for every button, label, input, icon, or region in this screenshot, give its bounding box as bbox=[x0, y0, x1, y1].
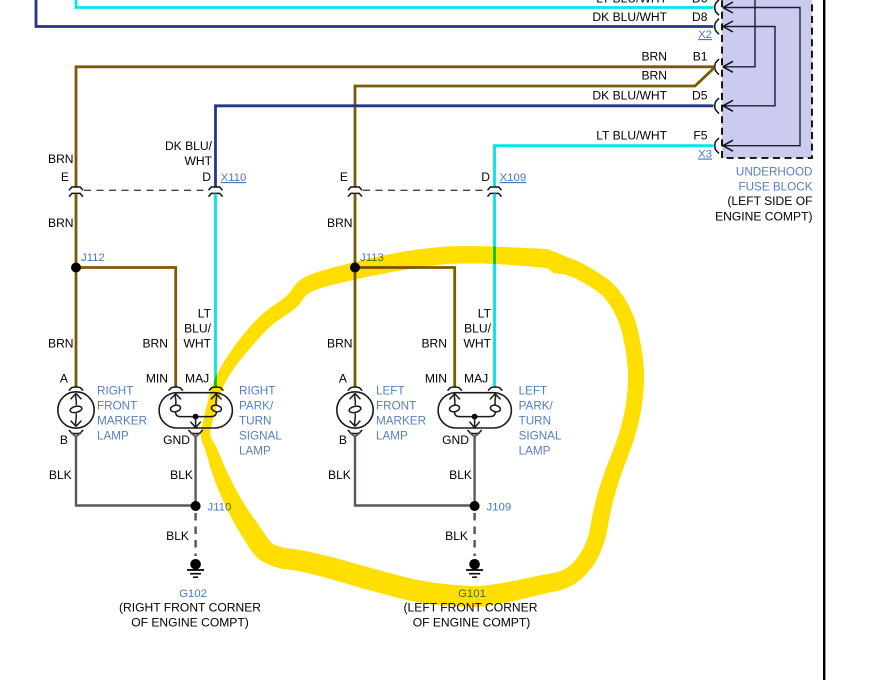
svg-text:RIGHT: RIGHT bbox=[239, 385, 275, 398]
label G102 bbox=[119, 588, 261, 630]
fuse block terminal arrow B1 bbox=[723, 61, 733, 72]
wire DK BLU/WHT D8 bbox=[36, 0, 714, 27]
svg-text:BLU/: BLU/ bbox=[464, 322, 492, 336]
ground G101 bbox=[466, 559, 483, 577]
fuse block terminal arrow D8 bbox=[723, 21, 733, 32]
svg-text:GND: GND bbox=[163, 433, 190, 447]
svg-text:MAJ: MAJ bbox=[185, 371, 209, 385]
yellow highlighter end overlap blob bbox=[544, 254, 570, 277]
wire BRN second bbox=[355, 68, 715, 188]
fuse block internal wire: top terminal to F5 bbox=[723, 8, 800, 146]
fuse block brace F5 bbox=[715, 138, 719, 154]
underhood fuse block body bbox=[722, 0, 812, 158]
svg-text:BRN: BRN bbox=[641, 50, 667, 64]
connector X109 dashed line bbox=[363, 189, 487, 191]
fuse block terminal arrow D5 bbox=[723, 100, 733, 111]
fuse block internal wire: D8 to D5 bbox=[723, 27, 775, 106]
svg-text:D8: D8 bbox=[692, 10, 708, 24]
svg-text:(LEFT SIDE OF: (LEFT SIDE OF bbox=[727, 194, 812, 208]
wire BRN B1 bbox=[76, 67, 714, 187]
wire LT BLU/WHT top (cut off) bbox=[76, 0, 714, 8]
svg-text:BRN: BRN bbox=[421, 337, 447, 351]
fuse block brace top bbox=[715, 0, 719, 15]
svg-text:UNDERHOOD: UNDERHOOD bbox=[736, 166, 813, 179]
splice J112 bbox=[71, 263, 81, 273]
svg-text:D6: D6 bbox=[692, 0, 708, 6]
connector X110 terminal D bbox=[209, 187, 223, 197]
svg-text:DK BLU/WHT: DK BLU/WHT bbox=[592, 10, 667, 24]
label E D X109 bbox=[340, 170, 526, 184]
splice J113 bbox=[350, 263, 360, 273]
connector X109 terminal E bbox=[348, 187, 362, 197]
svg-text:FRONT: FRONT bbox=[97, 400, 137, 413]
wire BLK dashed to G102 bbox=[194, 513, 196, 556]
svg-text:LT BLU/WHT: LT BLU/WHT bbox=[596, 129, 667, 143]
wire BRN below X109 to J113 to marker A bbox=[354, 194, 357, 387]
svg-text:F5: F5 bbox=[693, 129, 707, 143]
label top cut bbox=[596, 0, 708, 6]
svg-text:X2: X2 bbox=[698, 29, 712, 41]
svg-text:BLK: BLK bbox=[328, 468, 351, 482]
wire LT BLU below X110 to MAJ bbox=[214, 194, 217, 387]
svg-text:LEFT: LEFT bbox=[519, 385, 548, 398]
fuse block caption bbox=[715, 166, 813, 224]
fuse block terminal arrow F5 bbox=[723, 140, 733, 151]
fuse block brace D8 bbox=[715, 19, 719, 35]
wire BLK left marker B to J109 bbox=[355, 437, 475, 506]
svg-text:LEFT: LEFT bbox=[376, 385, 405, 398]
wire BRN branch J113 to MIN bbox=[355, 268, 455, 387]
svg-text:BRN: BRN bbox=[327, 337, 353, 351]
fuse block brace D5 bbox=[715, 98, 719, 114]
label right park/turn signal lamp bbox=[239, 385, 282, 458]
wire BLK left GND to J109 bbox=[473, 437, 475, 506]
svg-text:PARK/: PARK/ bbox=[519, 400, 554, 413]
svg-text:E: E bbox=[340, 170, 348, 184]
svg-text:OF ENGINE COMPT): OF ENGINE COMPT) bbox=[413, 616, 531, 630]
svg-text:BLK: BLK bbox=[170, 468, 193, 482]
svg-text:TURN: TURN bbox=[519, 415, 551, 428]
page border right bbox=[823, 0, 825, 680]
svg-text:LAMP: LAMP bbox=[239, 444, 271, 457]
connector X110 terminal E bbox=[69, 187, 83, 197]
label B GND left bbox=[339, 433, 469, 447]
svg-text:WHT: WHT bbox=[463, 337, 491, 351]
svg-text:SIGNAL: SIGNAL bbox=[519, 429, 562, 442]
wire BLK right marker B to J110 bbox=[76, 437, 196, 506]
label right front marker lamp bbox=[97, 385, 147, 443]
svg-text:B1: B1 bbox=[693, 50, 708, 64]
wire BLK dashed to G101 bbox=[473, 513, 475, 556]
svg-text:J112: J112 bbox=[81, 252, 105, 264]
label E D X110 bbox=[61, 170, 246, 184]
svg-text:FRONT: FRONT bbox=[376, 400, 416, 413]
svg-text:FUSE BLOCK: FUSE BLOCK bbox=[738, 180, 812, 193]
label BLK right pair bbox=[49, 468, 193, 482]
svg-text:A: A bbox=[60, 371, 69, 385]
svg-text:X109: X109 bbox=[500, 172, 527, 184]
label BRN B1 bbox=[641, 50, 707, 64]
right park/turn signal lamp bbox=[159, 387, 232, 437]
svg-text:D: D bbox=[481, 170, 490, 184]
svg-text:ENGINE COMPT): ENGINE COMPT) bbox=[715, 209, 812, 223]
svg-text:GND: GND bbox=[442, 433, 469, 447]
label left park/turn signal lamp bbox=[519, 385, 562, 458]
wire BLK right GND to J110 bbox=[194, 437, 196, 506]
svg-text:LAMP: LAMP bbox=[519, 444, 551, 457]
svg-text:OF ENGINE COMPT): OF ENGINE COMPT) bbox=[131, 616, 249, 630]
svg-text:LT BLU/WHT: LT BLU/WHT bbox=[596, 0, 667, 6]
wire BRN below X110 to J112 to marker A bbox=[75, 194, 78, 387]
svg-text:LT: LT bbox=[198, 307, 212, 321]
connector X110 dashed line bbox=[84, 189, 208, 191]
fuse block terminal arrow top bbox=[723, 2, 733, 13]
svg-text:DK BLU/WHT: DK BLU/WHT bbox=[592, 89, 667, 103]
wire BRN branch J112 to MIN bbox=[76, 268, 176, 387]
label A MIN MAJ right bbox=[60, 371, 209, 385]
yellow highlighter circle bbox=[201, 246, 644, 607]
ground G102 bbox=[187, 559, 204, 577]
svg-text:MARKER: MARKER bbox=[97, 415, 147, 428]
wire DK BLU/WHT D5 bbox=[216, 106, 714, 187]
svg-text:BLK: BLK bbox=[449, 468, 472, 482]
label B GND right bbox=[60, 433, 190, 447]
label LT BLU/WHT left lamp bbox=[463, 307, 491, 351]
left front marker lamp bbox=[337, 387, 373, 437]
svg-text:TURN: TURN bbox=[239, 415, 271, 428]
label DK BLU/WHT D5 bbox=[592, 89, 707, 103]
svg-text:B: B bbox=[339, 433, 347, 447]
svg-text:BLK: BLK bbox=[49, 468, 72, 482]
svg-text:(RIGHT FRONT CORNER: (RIGHT FRONT CORNER bbox=[119, 601, 261, 615]
fuse block brace B1 bbox=[715, 59, 719, 75]
label DK BLU/WHT D8 bbox=[592, 10, 707, 24]
svg-text:X110: X110 bbox=[221, 172, 247, 184]
svg-text:G102: G102 bbox=[179, 588, 207, 600]
label BLK left pair bbox=[328, 468, 472, 482]
svg-text:BRN: BRN bbox=[641, 69, 667, 83]
label DK BLU/WHT above D X110 bbox=[165, 139, 213, 168]
svg-text:LAMP: LAMP bbox=[97, 429, 129, 442]
svg-text:WHT: WHT bbox=[183, 337, 211, 351]
label LT BLU/WHT F5 bbox=[596, 129, 708, 143]
splice J110 bbox=[191, 501, 201, 511]
wire LT BLU below X109 to MAJ bbox=[493, 194, 496, 387]
svg-text:BLK: BLK bbox=[445, 529, 468, 543]
svg-text:DK BLU/: DK BLU/ bbox=[165, 139, 213, 153]
svg-text:BRN: BRN bbox=[48, 216, 74, 230]
left park/turn signal lamp bbox=[438, 387, 511, 437]
svg-text:BRN: BRN bbox=[48, 337, 74, 351]
svg-text:BLU/: BLU/ bbox=[184, 322, 212, 336]
label A MIN MAJ left bbox=[339, 371, 488, 385]
svg-text:BLK: BLK bbox=[166, 529, 189, 543]
fuse block internal wire: B1 upward bbox=[723, 0, 755, 67]
svg-text:SIGNAL: SIGNAL bbox=[239, 429, 282, 442]
splice J109 bbox=[470, 501, 480, 511]
svg-text:BRN: BRN bbox=[327, 216, 353, 230]
label G101 bbox=[404, 588, 538, 630]
svg-text:MIN: MIN bbox=[146, 371, 168, 385]
label left front marker lamp bbox=[376, 385, 426, 443]
svg-text:MAJ: MAJ bbox=[464, 371, 488, 385]
svg-text:PARK/: PARK/ bbox=[239, 400, 274, 413]
label LT BLU/WHT right lamp bbox=[183, 307, 211, 351]
svg-text:LT: LT bbox=[478, 307, 492, 321]
svg-text:BRN: BRN bbox=[142, 337, 168, 351]
svg-text:RIGHT: RIGHT bbox=[97, 385, 133, 398]
svg-text:D: D bbox=[202, 170, 211, 184]
svg-text:A: A bbox=[339, 371, 348, 385]
connector X109 terminal D bbox=[488, 187, 502, 197]
svg-text:MARKER: MARKER bbox=[376, 415, 426, 428]
wire LT BLU/WHT F5 bbox=[495, 146, 714, 187]
svg-text:LAMP: LAMP bbox=[376, 429, 408, 442]
svg-text:B: B bbox=[60, 433, 68, 447]
svg-text:WHT: WHT bbox=[184, 154, 212, 168]
right front marker lamp bbox=[58, 387, 94, 437]
svg-text:X3: X3 bbox=[698, 149, 712, 161]
svg-text:J109: J109 bbox=[487, 502, 512, 514]
svg-text:BRN: BRN bbox=[48, 152, 74, 166]
svg-text:E: E bbox=[61, 170, 69, 184]
svg-text:D5: D5 bbox=[692, 89, 708, 103]
svg-text:MIN: MIN bbox=[425, 371, 447, 385]
